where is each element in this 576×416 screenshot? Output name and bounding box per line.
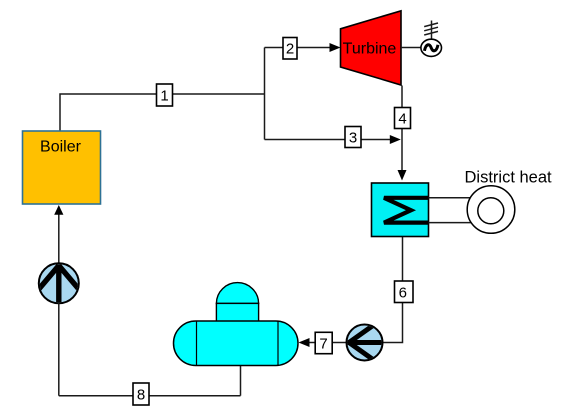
wire to turbine (stream 2) [265,47,333,49]
svg-text:Turbine: Turbine [343,40,397,57]
grid slash 3 [424,31,438,35]
district heat supply line [429,197,475,199]
wire tank bottom vertical [240,365,242,396]
tank seam left [196,321,198,366]
generator grid connection line [431,21,433,40]
arrowhead into heat exchanger [398,170,407,181]
grid slash 1 [424,23,438,27]
wire bypass (stream 3) [265,139,393,141]
svg-text:District heat: District heat [465,169,553,187]
condensate pump P2 (right) [347,325,383,361]
svg-text:2: 2 [286,41,294,58]
stream box 8 [133,383,149,405]
tank dome neck [216,303,258,322]
arrowhead stream 3 into node [390,135,401,144]
grid slash 2 [424,27,438,31]
stream box 1 [157,84,173,106]
svg-text:1: 1 [160,88,168,105]
turbine [341,11,402,85]
stream box 4 [395,108,411,129]
svg-text:4: 4 [398,111,406,128]
wire from boiler top to junction (stream 1) [60,94,265,131]
tank seam right [277,321,279,366]
stream box 3 [345,127,361,148]
stream box 2 [283,38,297,60]
district heat load outer circle [467,186,515,234]
generator G1 [421,39,442,56]
arrowhead into tank [299,338,310,347]
wire bottom-left vertical [58,303,60,396]
wire turbine to generator [401,47,421,49]
arrowhead into boiler [54,205,63,215]
feed pump P1 (left) [39,263,80,303]
heat exchanger HX1 [372,183,429,237]
stream box 6 [395,281,414,303]
wire turbine exhaust down (stream 4) [401,86,403,173]
heat exchanger coil (sigma) [384,198,429,223]
arrowhead into turbine [330,43,341,52]
stream box 7 [315,332,332,353]
wire bottom horizontal (stream 8) [59,395,241,397]
wire pump to tank (stream 7) [306,342,347,344]
generator sine symbol [424,45,438,51]
svg-text:Boiler: Boiler [40,138,82,155]
wire pump to boiler [58,212,60,263]
district heat load inner circle [478,198,504,224]
tank dome cap [216,283,258,304]
svg-text:7: 7 [319,336,327,353]
svg-text:3: 3 [349,130,357,147]
svg-text:8: 8 [137,387,145,404]
wire hx to pump [382,237,403,343]
district heat return line [429,222,475,224]
deaerator tank [174,321,299,366]
wire junction vertical [264,48,266,140]
svg-text:6: 6 [399,284,407,301]
boiler [23,131,101,204]
